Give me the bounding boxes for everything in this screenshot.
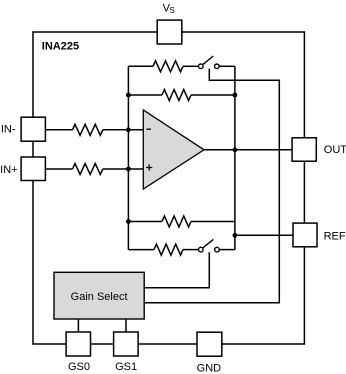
svg-text:GND: GND	[197, 362, 222, 374]
svg-text:IN-: IN-	[1, 124, 16, 136]
svg-text:GS1: GS1	[115, 361, 137, 373]
svg-text:IN+: IN+	[0, 164, 17, 176]
svg-text:GS0: GS0	[68, 361, 90, 373]
svg-text:S: S	[169, 6, 174, 15]
svg-text:Gain Select: Gain Select	[71, 291, 128, 303]
svg-text:REF: REF	[324, 231, 346, 243]
svg-text:INA225: INA225	[42, 41, 79, 53]
svg-text:OUT: OUT	[324, 144, 346, 156]
